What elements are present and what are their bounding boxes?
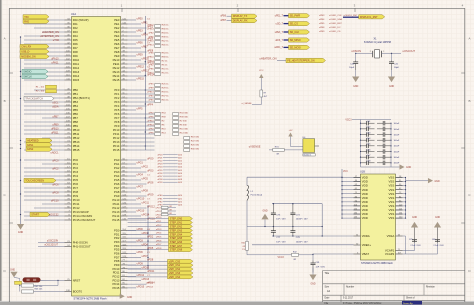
- port FAN2: [26, 147, 52, 151]
- pin PG13 U1A right, pin number 128: [121, 211, 128, 213]
- wire to PB13: [24, 141, 65, 143]
- svg-text:SD_PWR: SD_PWR: [290, 15, 301, 18]
- wire to PA6: [24, 43, 65, 45]
- svg-text:uOLED_CS: uOLED_CS: [329, 31, 341, 33]
- capacitor C62 100nF pair: [361, 128, 367, 130]
- wire and net label uPG10: [128, 199, 136, 201]
- wire PF12 to series resistor: [128, 137, 155, 139]
- wire and net label uPD15: [128, 287, 136, 289]
- svg-text:uPE10: uPE10: [147, 56, 154, 58]
- svg-text:uPB9: uPB9: [52, 123, 59, 126]
- svg-text:PA8: PA8: [73, 50, 78, 54]
- pin PA15 U1A left, pin number 111: [65, 79, 72, 81]
- svg-text:VDD: VDD: [362, 184, 368, 188]
- svg-text:uPF14: uPF14: [147, 124, 154, 126]
- svg-text:PD4: PD4: [114, 244, 120, 248]
- wire to PB15: [24, 149, 65, 151]
- svg-text:uPE12: uPE12: [137, 65, 145, 68]
- svg-text:VDD: VDD: [362, 204, 368, 208]
- wire and net label uPD6: [128, 253, 136, 255]
- svg-text:R10 330: R10 330: [180, 128, 189, 130]
- svg-text:uPD1: uPD1: [157, 157, 163, 159]
- pin PD5 U1A right, pin number 119: [121, 249, 128, 251]
- pin PD10 U1A right, pin number 79: [121, 268, 128, 270]
- svg-text:uPB7: uPB7: [52, 115, 59, 118]
- port CAN_RX: [20, 44, 49, 48]
- svg-text:SWDIO: SWDIO: [23, 70, 31, 73]
- pin PD11 U1A right, pin number 80: [121, 272, 128, 274]
- svg-text:PG5: PG5: [114, 178, 120, 182]
- wire PF10 to series resistor: [128, 129, 155, 131]
- svg-text:uPE2: uPE2: [148, 32, 154, 34]
- svg-text:uPA10: uPA10: [51, 57, 59, 60]
- svg-text:uPD15: uPD15: [137, 285, 145, 288]
- svg-text:PC14-OSC32IN: PC14-OSC32IN: [73, 214, 93, 218]
- wire vcc3 row: [247, 254, 292, 256]
- svg-text:PD2: PD2: [114, 236, 120, 240]
- pin PA6 U1A left, pin number 42: [65, 43, 72, 45]
- svg-text:PD3: PD3: [114, 240, 120, 244]
- svg-text:100nF / 16V: 100nF / 16V: [296, 219, 308, 221]
- wire to PA15: [24, 79, 65, 81]
- svg-text:PG7: PG7: [114, 186, 120, 190]
- svg-text:uPF10: uPF10: [147, 120, 154, 122]
- svg-text:uSCL: uSCL: [52, 101, 59, 104]
- svg-text:uPB10: uPB10: [51, 127, 59, 130]
- svg-text:START: START: [31, 213, 39, 216]
- wire to PA1: [24, 23, 65, 25]
- svg-text:VDD: VDD: [362, 212, 368, 216]
- svg-text:uPF2: uPF2: [148, 128, 154, 130]
- svg-text:PB8: PB8: [73, 120, 79, 124]
- wire and net label uPE15: [128, 79, 136, 81]
- pin PE15 U1A right, pin number 46: [121, 79, 128, 81]
- svg-text:uPG5: uPG5: [142, 177, 149, 180]
- svg-text:PE2: PE2: [114, 26, 120, 30]
- pin PC12 U1A left, pin number 80: [65, 207, 72, 209]
- svg-text:VSS: VSS: [389, 204, 395, 208]
- reset switch SW1: [23, 278, 41, 283]
- svg-text:PG15: PG15: [112, 218, 120, 222]
- capacitor C66 100nF pair: [361, 151, 367, 153]
- pin PH0-OSCIN U1A left, pin number 23: [65, 241, 72, 243]
- svg-text:PD7: PD7: [114, 255, 120, 259]
- svg-text:SD_MOSI: SD_MOSI: [290, 46, 301, 49]
- pin PB15 U1A left, pin number 76: [65, 149, 72, 151]
- svg-text:uPG9: uPG9: [147, 193, 154, 196]
- wire to PC1: [42, 163, 65, 165]
- resistor R7 vertical: [260, 90, 263, 97]
- pin PA5 U1A left, pin number 41: [65, 39, 72, 41]
- svg-text:uPE13: uPE13: [147, 91, 154, 93]
- pin VDD/VSS row 10 U1B: [342, 213, 361, 215]
- title block frame: [323, 270, 465, 272]
- svg-text:Title: Title: [325, 272, 330, 275]
- svg-text:PD0: PD0: [114, 229, 120, 233]
- svg-text:VDD: VDD: [362, 196, 368, 200]
- svg-text:CAN_RX: CAN_RX: [21, 45, 31, 48]
- pin PC7 U1A left, pin number 64: [65, 187, 72, 189]
- wire and net label uPE5: [128, 39, 147, 41]
- pin PA3 U1A left, pin number 37: [65, 31, 72, 33]
- svg-text:uVSENSE: uVSENSE: [249, 145, 261, 149]
- wire and net label uPE4: [128, 35, 141, 37]
- wire to PA9: [34, 55, 65, 57]
- pin PE5 U1A right, pin number 4: [121, 39, 128, 41]
- svg-text:1: 1: [383, 51, 384, 53]
- wire switch to NRST: [40, 279, 64, 281]
- svg-text:uPE14: uPE14: [147, 44, 154, 46]
- wire and net label uPE8: [128, 51, 147, 53]
- svg-text:R33 1k: R33 1k: [162, 91, 170, 93]
- wire and net label uPD10: [128, 268, 141, 270]
- wire VBAT: [313, 253, 354, 255]
- svg-text:DISPLAY1_RST: DISPLAY1_RST: [360, 16, 378, 19]
- pin PE9 U1A right, pin number 40: [121, 55, 128, 57]
- svg-text:PA9: PA9: [73, 54, 78, 58]
- pin PD9 U1A right, pin number 78: [121, 264, 128, 266]
- svg-text:STEP_EN6: STEP_EN6: [170, 241, 183, 244]
- wire to PC4: [24, 175, 65, 177]
- svg-text:R2 330: R2 330: [180, 120, 188, 122]
- svg-text:uPG7: uPG7: [137, 185, 144, 188]
- svg-text:PD14: PD14: [113, 282, 120, 286]
- pin PB8 U1A left, pin number 139: [65, 121, 72, 123]
- capacitor C81: [312, 255, 314, 261]
- svg-text:uPD2: uPD2: [157, 161, 163, 163]
- svg-text:R45 10k: R45 10k: [35, 286, 44, 288]
- svg-text:VSS: VSS: [389, 208, 395, 212]
- wire and net label uPD12: [128, 276, 136, 278]
- svg-text:uPE6: uPE6: [137, 41, 144, 44]
- pin PD3 U1A right, pin number 117: [121, 241, 128, 243]
- svg-text:PE8: PE8: [114, 50, 120, 54]
- resistor R45: [22, 284, 34, 287]
- svg-text:PA10: PA10: [73, 58, 80, 62]
- svg-text:PE13: PE13: [113, 70, 120, 74]
- svg-text:PD8: PD8: [114, 259, 120, 263]
- svg-text:BOOT0: BOOT0: [73, 290, 83, 294]
- wire to PB1: [24, 93, 65, 95]
- svg-text:uPD5: uPD5: [157, 170, 163, 172]
- wire PF3 to series resistor: [128, 101, 155, 103]
- svg-text:PG12: PG12: [112, 206, 120, 210]
- pin PE3 U1A right, pin number 2: [121, 31, 128, 33]
- pin PC4 U1A left, pin number 33: [65, 175, 72, 177]
- svg-text:PC7: PC7: [73, 186, 79, 190]
- svg-text:PF3: PF3: [114, 100, 120, 104]
- svg-text:PC6: PC6: [73, 182, 79, 186]
- svg-text:VCC: VCC: [343, 171, 348, 173]
- svg-text:PB4: PB4: [73, 104, 79, 108]
- svg-text:PF5: PF5: [114, 108, 120, 112]
- svg-text:VSS: VSS: [389, 192, 395, 196]
- svg-text:uPD0: uPD0: [157, 154, 163, 156]
- svg-text:GND: GND: [406, 167, 411, 169]
- svg-text:uPD11: uPD11: [147, 270, 155, 273]
- wire and net label uPG2: [128, 167, 141, 169]
- pin PC6 U1A left, pin number 63: [65, 183, 72, 185]
- svg-text:uPA11: uPA11: [51, 61, 59, 64]
- svg-text:GND: GND: [262, 210, 267, 212]
- bus wire thick: [343, 16, 359, 19]
- svg-text:R37 1k: R37 1k: [162, 95, 170, 97]
- svg-text:uPD3: uPD3: [157, 164, 163, 166]
- svg-text:PC8: PC8: [73, 190, 79, 194]
- svg-text:uPE1: uPE1: [157, 198, 163, 200]
- svg-text:FAN1: FAN1: [27, 144, 34, 147]
- svg-text:1nF / 16V: 1nF / 16V: [276, 219, 286, 221]
- ground cap bank GND right: [400, 164, 405, 169]
- pin PA1 U1A left, pin number 35: [65, 23, 72, 25]
- port HEATBED: [26, 138, 52, 142]
- wire to PC9: [24, 195, 65, 197]
- svg-text:PF9: PF9: [114, 124, 120, 128]
- wire and net label uPG7: [128, 187, 136, 189]
- svg-text:uPB3: uPB3: [319, 15, 325, 17]
- wire VREF: [252, 244, 354, 246]
- svg-text:uSPI_CS1: uSPI_CS1: [169, 264, 181, 267]
- resistor boxes small yellow pair: [46, 85, 57, 88]
- svg-text:VDD: VDD: [362, 176, 368, 180]
- svg-text:PB5: PB5: [73, 108, 79, 112]
- svg-text:uPG0: uPG0: [147, 157, 154, 160]
- wire vsense: [269, 149, 303, 151]
- pin PA0 (WKUP) U1A left, pin number 34: [65, 19, 72, 21]
- pin PG12 U1A right, pin number 127: [121, 207, 128, 209]
- wire PF0 to series resistor: [128, 89, 155, 91]
- wire and net label uPE13: [128, 71, 141, 73]
- wire to PC8: [24, 191, 65, 193]
- pin VREF+ U1B: [354, 244, 361, 246]
- resistor row2 y=146: [184, 145, 190, 148]
- pin PF2 U1A right, pin number 12: [121, 97, 128, 99]
- svg-text:PC1: PC1: [73, 162, 79, 166]
- svg-text:uPF6: uPF6: [148, 116, 154, 118]
- pin VDD/VSS row 11 U1B: [342, 217, 361, 219]
- wire VSSA down: [403, 235, 406, 237]
- svg-text:R2 1k: R2 1k: [162, 60, 169, 62]
- wire right vertical: [321, 204, 323, 236]
- svg-text:uPB4: uPB4: [319, 19, 325, 21]
- svg-text:8.0MHz Crystal 10PPM: 8.0MHz Crystal 10PPM: [364, 40, 391, 44]
- svg-text:B: B: [4, 99, 6, 103]
- port STEP_EN6 with wire: [128, 241, 169, 243]
- svg-text:PE14: PE14: [113, 74, 120, 78]
- svg-text:PD1: PD1: [114, 232, 120, 236]
- svg-text:uPG12: uPG12: [147, 205, 155, 208]
- svg-text:uPE3: uPE3: [137, 29, 144, 32]
- svg-text:PA1: PA1: [73, 22, 78, 26]
- pin PF8 U1A right, pin number 20: [121, 121, 128, 123]
- wire and net label uPD9: [128, 264, 136, 266]
- svg-text:uPG8: uPG8: [142, 189, 149, 192]
- svg-text:TRACKSWITCH: TRACKSWITCH: [25, 97, 43, 100]
- wire VSS right rail: [405, 178, 407, 219]
- wire crystal right: [382, 52, 402, 54]
- svg-text:R26 1k: R26 1k: [162, 24, 170, 26]
- svg-text:uTX0: uTX0: [53, 38, 60, 42]
- wire to PC6: [42, 183, 65, 185]
- svg-text:uOLED_RST: uOLED_RST: [329, 23, 342, 25]
- pin PB3 U1A left, pin number 133: [65, 101, 72, 103]
- resistor R46: [22, 290, 34, 293]
- svg-text:uPD8: uPD8: [157, 179, 163, 181]
- svg-text:uPE9: uPE9: [148, 87, 154, 89]
- svg-text:uPG14: uPG14: [142, 213, 150, 216]
- svg-text:PB1: PB1: [73, 92, 79, 96]
- pin PB6 U1A left, pin number 136: [65, 113, 72, 115]
- pin PB1 U1A left, pin number 47: [65, 93, 72, 95]
- svg-text:R38 330: R38 330: [180, 116, 189, 118]
- pin NRST U1A left, pin number 25: [65, 280, 72, 282]
- svg-text:uPD1: uPD1: [156, 221, 162, 223]
- wire cap bank top: [352, 119, 391, 121]
- svg-text:GND: GND: [435, 181, 440, 183]
- resistor row2 y=138: [184, 137, 190, 140]
- pin PG10 U1A right, pin number 125: [121, 199, 128, 201]
- svg-text:PA5: PA5: [73, 38, 78, 42]
- wire to PC7: [24, 187, 65, 189]
- ground C40: [355, 70, 357, 77]
- pin PC15-OSC32OUT U1A left, pin number 9: [65, 219, 72, 221]
- pin PA11 U1A left, pin number 103: [65, 63, 72, 65]
- wire to PC13-WKUP: [24, 211, 65, 213]
- svg-text:VSS: VSS: [389, 188, 395, 192]
- svg-text:PE7: PE7: [114, 46, 120, 50]
- svg-text:R46 10k: R46 10k: [35, 288, 44, 290]
- svg-text:STEP_EN2: STEP_EN2: [170, 225, 183, 228]
- wire gnd rail: [247, 226, 322, 228]
- svg-text:R14 1k: R14 1k: [162, 72, 170, 74]
- node bus junctions: [20, 36, 21, 37]
- svg-text:PB13: PB13: [73, 140, 80, 144]
- pin PA10 U1A left, pin number 102: [65, 59, 72, 61]
- svg-text:PF10: PF10: [113, 128, 120, 132]
- svg-text:R58 1k: R58 1k: [162, 56, 170, 58]
- svg-text:B: B: [468, 99, 470, 103]
- svg-text:uADC1: uADC1: [50, 151, 59, 154]
- pin PD8 U1A right, pin number 77: [121, 260, 128, 262]
- svg-text:1nF / 16V: 1nF / 16V: [276, 241, 286, 243]
- wire and net label uPG3: [128, 171, 147, 173]
- pin PG6 U1A right, pin number 91: [121, 183, 128, 185]
- svg-text:VCAP2: VCAP2: [385, 252, 395, 256]
- pin PD13 U1A right, pin number 82: [121, 279, 128, 281]
- capacitor C80 with ground: [403, 253, 438, 255]
- wire and net label uPG4: [128, 175, 136, 177]
- svg-text:+5V: +5V: [289, 130, 293, 132]
- svg-text:uPD5: uPD5: [156, 237, 162, 239]
- svg-text:GND: GND: [389, 86, 394, 88]
- pin VDD/VSS row 5 U1B: [342, 193, 361, 195]
- pin PC3 U1A left, pin number 18: [65, 171, 72, 173]
- svg-text:uPC10: uPC10: [51, 199, 59, 202]
- svg-text:uPF6: uPF6: [148, 132, 154, 134]
- port USB_DP: [20, 54, 49, 58]
- wire to PB6: [24, 113, 65, 115]
- svg-text:R25 1k: R25 1k: [162, 83, 170, 85]
- svg-text:PA0 (WKUP): PA0 (WKUP): [73, 18, 89, 22]
- svg-text:PB2 (BOOT1): PB2 (BOOT1): [73, 96, 90, 100]
- pin VDD/VSS row 7 U1B: [342, 201, 361, 203]
- wire to PB3: [24, 101, 65, 103]
- svg-text:VDD: VDD: [362, 200, 368, 204]
- capacitor C74: [292, 204, 294, 213]
- svg-text:PC12: PC12: [73, 206, 80, 210]
- port uSPI_CS3 with wire: [128, 272, 168, 274]
- svg-text:uPD4: uPD4: [156, 233, 162, 235]
- wire to PA4: [24, 35, 65, 37]
- svg-text:PC5: PC5: [73, 178, 79, 182]
- svg-text:PG2: PG2: [114, 166, 120, 170]
- svg-text:PD10: PD10: [113, 267, 120, 271]
- svg-text:PF6: PF6: [114, 112, 120, 116]
- svg-text:R34 330: R34 330: [180, 112, 189, 114]
- svg-text:PE0: PE0: [114, 18, 120, 22]
- pin PG14 U1A right, pin number 129: [121, 215, 128, 217]
- wire to PB9: [24, 125, 65, 127]
- wire to PA7: [24, 47, 65, 49]
- wire left vertical bus: [20, 37, 22, 224]
- pin PE7 U1A right, pin number 38: [121, 47, 128, 49]
- svg-text:uPG2: uPG2: [142, 165, 149, 168]
- wire PF2 to series resistor: [128, 97, 155, 99]
- svg-text:PE4: PE4: [114, 34, 120, 38]
- svg-text:PD15: PD15: [113, 286, 120, 290]
- svg-text:uPE10: uPE10: [147, 72, 154, 74]
- svg-text:U1A: U1A: [71, 12, 76, 16]
- wire PF6 to series resistor: [128, 113, 155, 115]
- wire to PA5: [24, 39, 65, 41]
- pin VDD/VSS row 8 U1B: [342, 205, 361, 207]
- wire filter top rail: [247, 176, 342, 178]
- pin VBAT U1B: [354, 253, 361, 255]
- svg-text:R34 1k: R34 1k: [162, 32, 170, 34]
- pin PG2 U1A right, pin number 87: [121, 167, 128, 169]
- pin PA13 U1A left, pin number 109: [65, 71, 72, 73]
- capacitor C79 with ground: [403, 250, 415, 252]
- wire to PC10: [24, 199, 65, 201]
- wire to PB5: [24, 109, 65, 111]
- svg-text:PF8: PF8: [114, 120, 120, 124]
- svg-text:uOSC32: uOSC32: [49, 213, 59, 216]
- svg-text:PA15: PA15: [73, 78, 80, 82]
- ground MCU bottom right GND: [119, 295, 122, 297]
- svg-text:PF1: PF1: [114, 92, 120, 96]
- svg-text:VSS: VSS: [389, 200, 395, 204]
- svg-text:uPD8: uPD8: [156, 248, 162, 250]
- small yellow cap near reset: [15, 281, 22, 284]
- svg-text:uPD13: uPD13: [142, 278, 150, 281]
- wire and net label uPD3: [128, 241, 136, 243]
- pin PE4 U1A right, pin number 3: [121, 35, 128, 37]
- capacitor C75: [272, 204, 274, 213]
- wire right vertical bus lower: [147, 205, 149, 270]
- svg-text:uPG3: uPG3: [147, 169, 154, 172]
- svg-text:uSPI_CS3: uSPI_CS3: [169, 272, 181, 275]
- svg-text:R26 330: R26 330: [191, 144, 200, 146]
- pin PC10 U1A left, pin number 78: [65, 199, 72, 201]
- svg-text:PF7: PF7: [114, 116, 120, 120]
- wire and net label uPD4: [128, 245, 141, 247]
- wire and net label uPG14: [128, 215, 141, 217]
- svg-text:100nF: 100nF: [394, 123, 400, 125]
- wire and net label uPD2: [128, 237, 147, 239]
- pin PB11 U1A left, pin number 70: [65, 133, 72, 135]
- cap bank rails: [360, 120, 362, 168]
- pin PB9 U1A left, pin number 140: [65, 125, 72, 127]
